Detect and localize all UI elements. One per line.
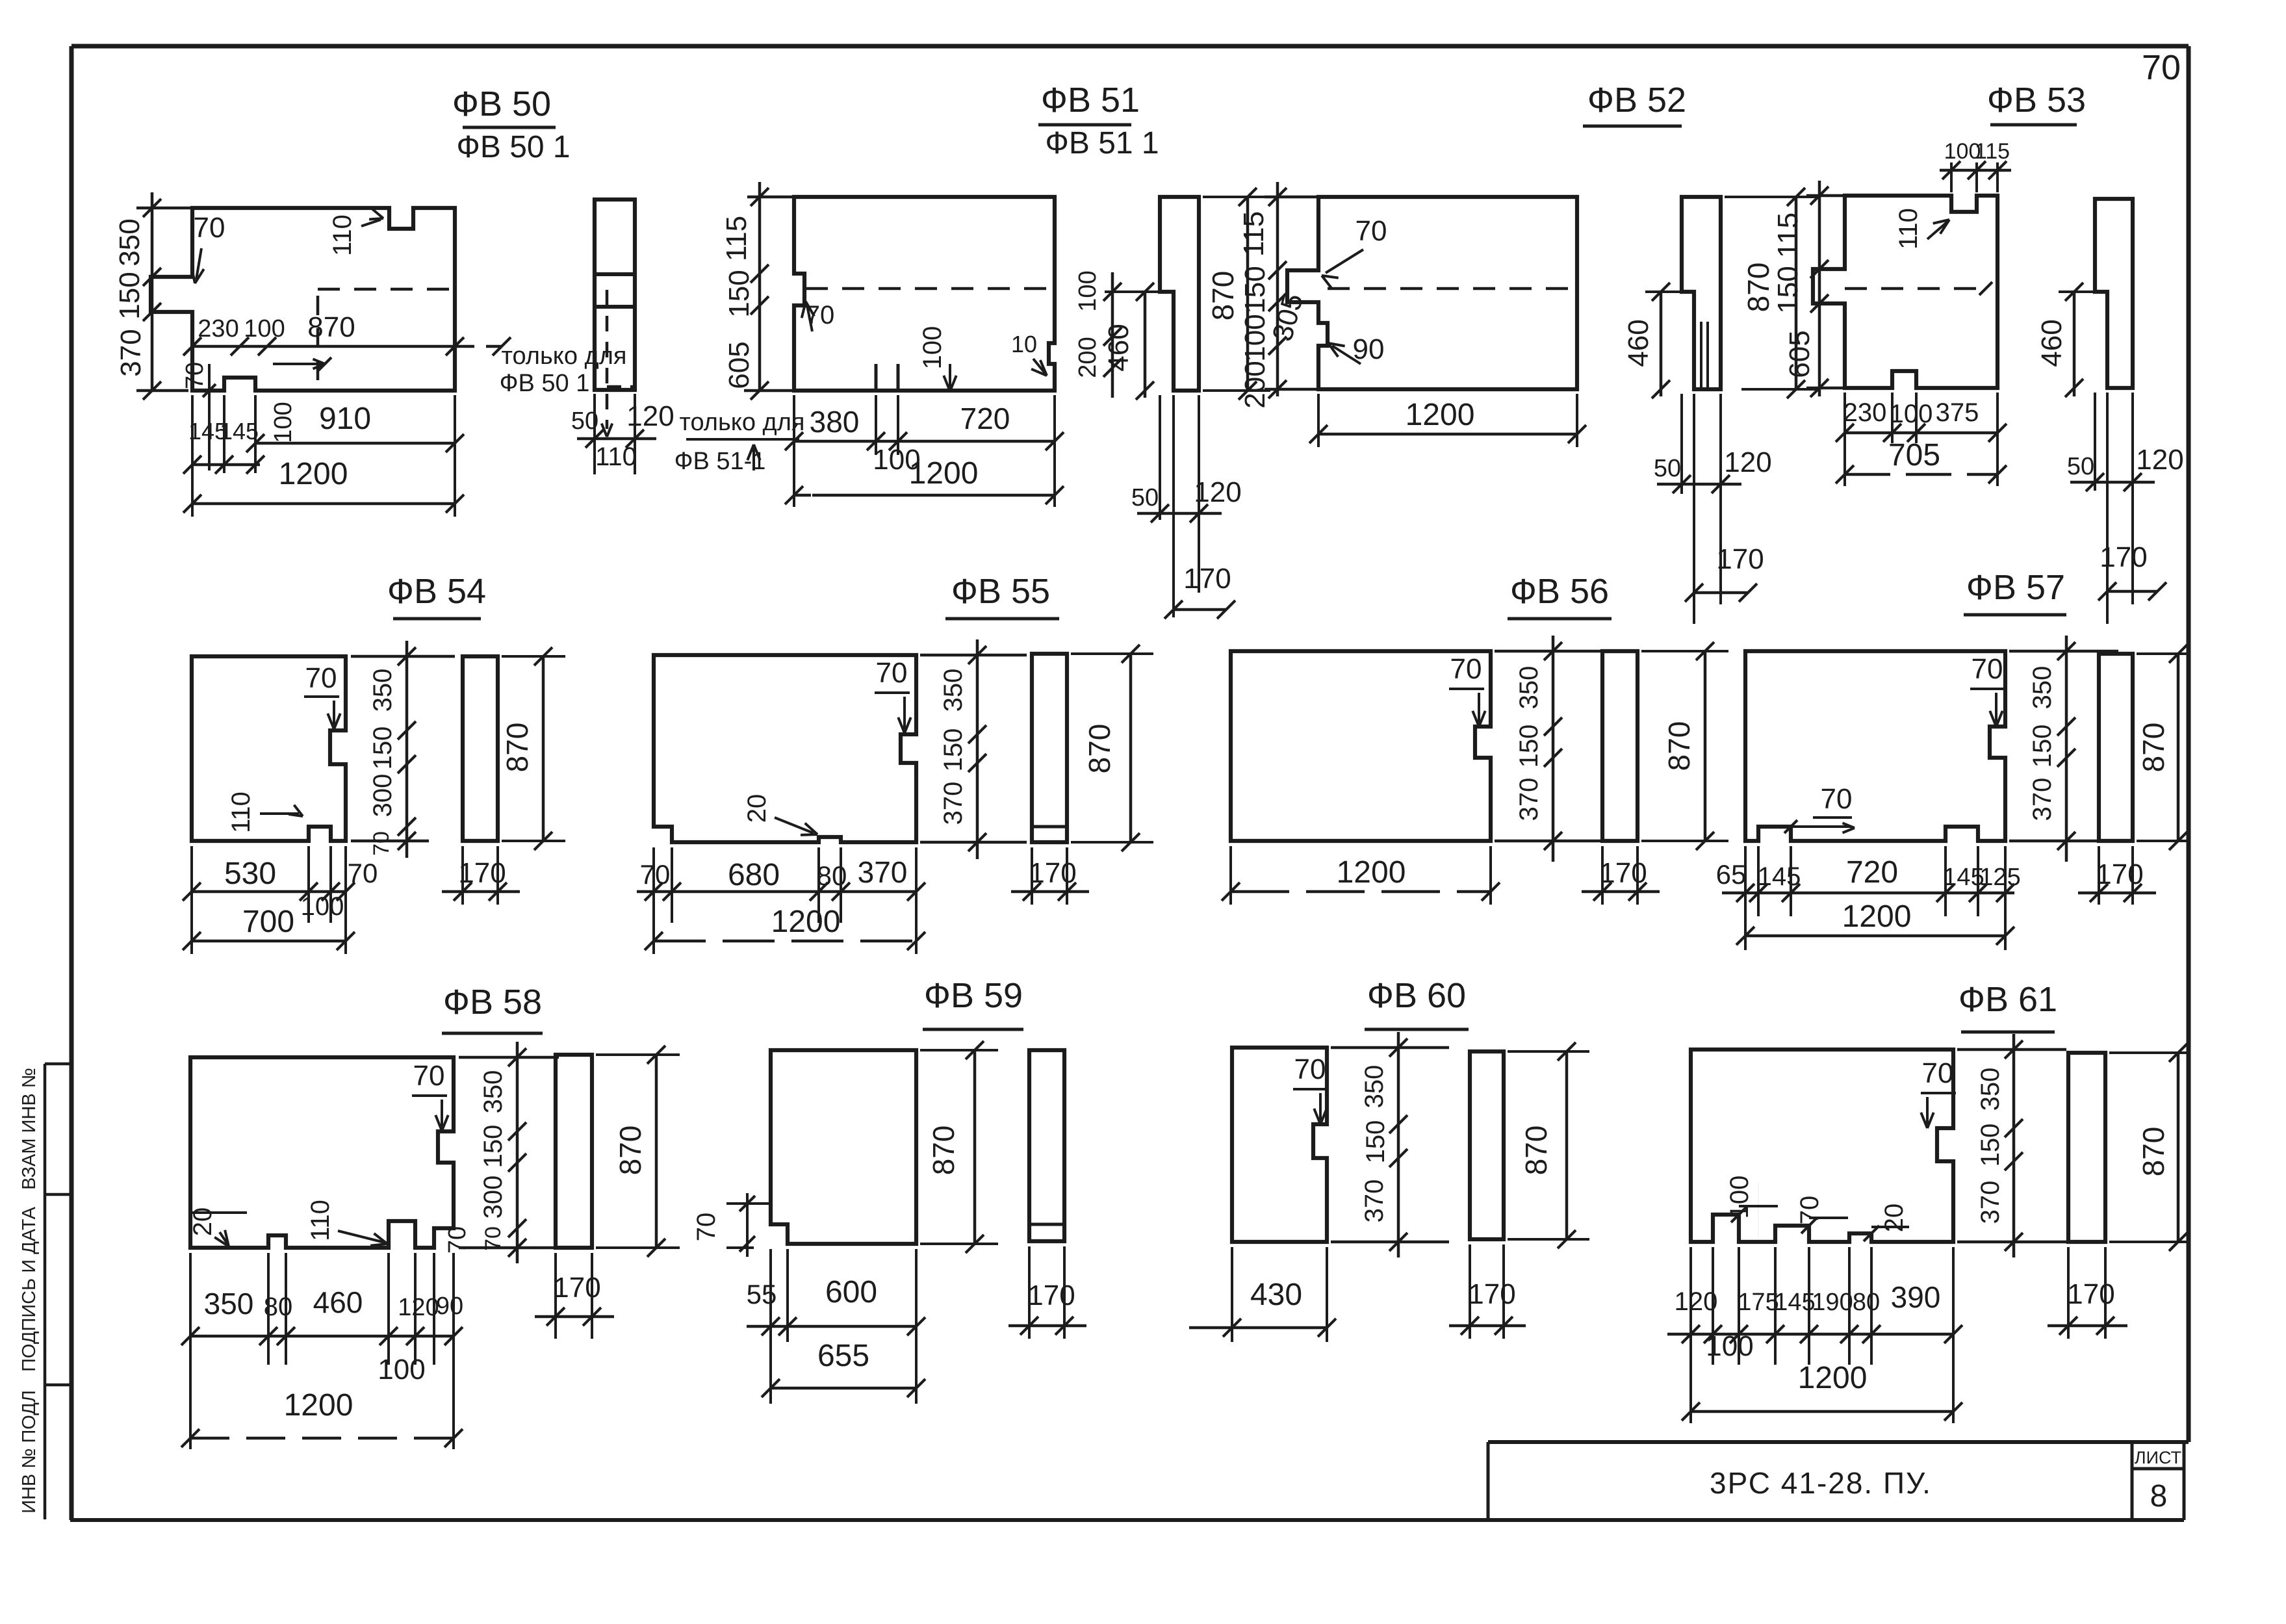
svg-text:150: 150: [2028, 725, 2057, 768]
svg-text:680: 680: [728, 858, 780, 892]
svg-text:ЛИСТ: ЛИСТ: [2135, 1448, 2181, 1467]
svg-text:1200: 1200: [1798, 1361, 1868, 1395]
svg-text:150: 150: [939, 728, 968, 772]
svg-text:ФВ 51: ФВ 51: [1041, 81, 1140, 120]
svg-text:70: 70: [2142, 48, 2181, 87]
svg-text:150: 150: [114, 272, 146, 319]
svg-text:170: 170: [1468, 1278, 1515, 1310]
svg-text:50: 50: [1654, 455, 1681, 482]
svg-text:1200: 1200: [1842, 899, 1912, 934]
svg-text:120: 120: [2136, 444, 2183, 476]
svg-text:375: 375: [1936, 398, 1979, 427]
svg-text:370: 370: [2028, 778, 2057, 821]
svg-text:150: 150: [479, 1125, 507, 1168]
svg-text:150: 150: [1772, 266, 1804, 313]
svg-text:870: 870: [613, 1126, 647, 1176]
svg-text:70: 70: [305, 662, 337, 694]
svg-text:70: 70: [640, 859, 671, 890]
svg-text:1200: 1200: [1337, 855, 1406, 890]
svg-text:65: 65: [1716, 859, 1747, 890]
svg-text:115: 115: [1772, 213, 1804, 258]
svg-text:70: 70: [1821, 783, 1853, 815]
svg-text:190: 190: [1812, 1289, 1853, 1316]
svg-text:870: 870: [1662, 721, 1696, 771]
svg-text:70: 70: [481, 1226, 506, 1251]
svg-text:ФВ 61: ФВ 61: [1959, 980, 2057, 1019]
svg-text:70: 70: [1922, 1057, 1954, 1089]
svg-text:110: 110: [595, 443, 637, 471]
svg-text:170: 170: [1027, 1280, 1075, 1311]
svg-text:170: 170: [2067, 1278, 2114, 1310]
svg-text:1200: 1200: [279, 457, 348, 491]
svg-text:705: 705: [1888, 438, 1940, 472]
svg-text:200: 200: [1239, 361, 1271, 408]
svg-text:600: 600: [825, 1275, 877, 1309]
svg-text:380: 380: [810, 405, 860, 439]
svg-text:870: 870: [2137, 723, 2170, 773]
svg-text:ФВ 55: ФВ 55: [951, 572, 1050, 611]
svg-text:870: 870: [1206, 271, 1240, 321]
svg-text:80: 80: [264, 1293, 293, 1321]
svg-text:720: 720: [960, 402, 1010, 435]
svg-text:10: 10: [1011, 331, 1037, 357]
svg-text:145: 145: [1774, 1289, 1815, 1316]
svg-text:20: 20: [743, 794, 771, 823]
svg-text:170: 170: [1599, 857, 1647, 889]
svg-text:120: 120: [1675, 1287, 1718, 1316]
svg-text:460: 460: [2036, 319, 2068, 367]
svg-text:120: 120: [1724, 446, 1771, 478]
svg-text:1200: 1200: [284, 1388, 353, 1423]
svg-text:120: 120: [626, 400, 674, 432]
svg-text:370: 370: [1976, 1181, 2005, 1224]
svg-text:870: 870: [307, 311, 355, 343]
svg-text:460: 460: [313, 1285, 363, 1319]
svg-text:175: 175: [1738, 1289, 1779, 1316]
svg-text:230: 230: [198, 315, 238, 342]
svg-text:145: 145: [1943, 864, 1984, 891]
svg-text:80: 80: [1853, 1289, 1880, 1316]
svg-text:100: 100: [301, 892, 344, 921]
svg-text:300: 300: [368, 774, 397, 818]
svg-text:70: 70: [1294, 1053, 1326, 1085]
svg-text:1200: 1200: [1406, 398, 1475, 432]
svg-text:150: 150: [1515, 725, 1543, 768]
svg-text:350: 350: [1976, 1068, 2005, 1111]
svg-text:100: 100: [918, 326, 947, 370]
svg-text:1200: 1200: [771, 905, 841, 939]
svg-text:90: 90: [436, 1293, 463, 1320]
svg-text:1200: 1200: [909, 456, 979, 491]
svg-text:70: 70: [1355, 215, 1387, 247]
svg-text:350: 350: [368, 669, 397, 712]
svg-text:870: 870: [927, 1126, 960, 1176]
svg-text:170: 170: [1029, 857, 1076, 889]
svg-text:170: 170: [2100, 541, 2147, 573]
svg-text:110: 110: [1894, 208, 1923, 250]
svg-text:70: 70: [413, 1060, 445, 1092]
svg-text:70: 70: [876, 657, 908, 689]
svg-text:100: 100: [378, 1354, 425, 1386]
svg-text:ФВ 50 1: ФВ 50 1: [456, 130, 570, 164]
svg-text:170: 170: [553, 1272, 600, 1304]
svg-text:ВЗАМ ИНВ №: ВЗАМ ИНВ №: [19, 1068, 40, 1190]
svg-text:70: 70: [1795, 1196, 1824, 1225]
svg-text:ФВ 57: ФВ 57: [1966, 568, 2065, 607]
svg-text:ИНВ № ПОДЛ: ИНВ № ПОДЛ: [19, 1390, 40, 1514]
svg-text:150: 150: [368, 727, 397, 770]
svg-text:100: 100: [1239, 314, 1271, 361]
svg-text:430: 430: [1250, 1278, 1302, 1312]
svg-text:70: 70: [692, 1213, 721, 1242]
svg-text:170: 170: [1183, 563, 1231, 595]
svg-text:350: 350: [2028, 666, 2057, 710]
svg-text:8: 8: [2150, 1479, 2168, 1514]
svg-text:910: 910: [319, 402, 371, 436]
svg-text:ФВ 54: ФВ 54: [387, 572, 486, 611]
svg-text:70: 70: [444, 1226, 471, 1254]
svg-text:100: 100: [1074, 270, 1101, 311]
svg-text:70: 70: [181, 362, 209, 389]
svg-text:150: 150: [1239, 266, 1271, 313]
svg-text:115: 115: [1975, 139, 2010, 164]
svg-text:370: 370: [939, 782, 968, 825]
svg-text:460: 460: [1623, 319, 1654, 367]
svg-text:ФВ 51 1: ФВ 51 1: [1045, 126, 1159, 161]
svg-text:ПОДПИСЬ И ДАТА: ПОДПИСЬ И ДАТА: [19, 1206, 40, 1371]
svg-text:145: 145: [220, 418, 259, 445]
svg-text:110: 110: [227, 792, 255, 833]
svg-text:80: 80: [817, 860, 847, 891]
svg-text:145: 145: [1758, 862, 1801, 891]
svg-text:120: 120: [398, 1294, 439, 1321]
svg-text:605: 605: [1784, 330, 1816, 378]
svg-text:655: 655: [817, 1339, 869, 1373]
svg-text:ФВ 50: ФВ 50: [452, 84, 551, 123]
svg-text:870: 870: [1519, 1126, 1553, 1176]
svg-text:170: 170: [1716, 543, 1764, 575]
svg-text:350: 350: [1515, 666, 1543, 710]
svg-text:605: 605: [723, 341, 755, 389]
svg-text:300: 300: [479, 1176, 507, 1219]
svg-text:870: 870: [1083, 724, 1116, 774]
svg-text:70: 70: [369, 831, 394, 856]
svg-text:870: 870: [500, 723, 534, 773]
svg-text:370: 370: [1360, 1179, 1389, 1223]
svg-text:720: 720: [1846, 855, 1898, 890]
svg-text:55: 55: [747, 1279, 777, 1309]
svg-text:460: 460: [1103, 324, 1135, 371]
svg-text:170: 170: [458, 857, 506, 889]
svg-text:50: 50: [2067, 453, 2094, 480]
svg-text:870: 870: [1741, 263, 1775, 313]
svg-text:ФВ 52: ФВ 52: [1587, 81, 1686, 120]
svg-text:ФВ 60: ФВ 60: [1367, 976, 1466, 1015]
svg-text:390: 390: [1891, 1280, 1941, 1314]
svg-text:200: 200: [1074, 337, 1101, 378]
svg-text:125: 125: [1979, 864, 2020, 891]
svg-text:50: 50: [571, 407, 598, 435]
svg-text:230: 230: [1843, 398, 1887, 427]
svg-text:150: 150: [1976, 1124, 2005, 1167]
svg-text:150: 150: [1361, 1120, 1390, 1164]
svg-text:370: 370: [115, 329, 147, 376]
svg-text:ФВ 50 1: ФВ 50 1: [500, 370, 590, 397]
svg-text:870: 870: [2137, 1127, 2170, 1177]
svg-text:ФВ 56: ФВ 56: [1510, 572, 1609, 611]
svg-text:350: 350: [479, 1070, 507, 1114]
svg-text:70: 70: [194, 212, 225, 244]
svg-text:3РС 41-28. ПУ.: 3РС 41-28. ПУ.: [1710, 1466, 1932, 1500]
svg-text:100: 100: [244, 315, 285, 342]
svg-text:70: 70: [1450, 653, 1482, 685]
svg-text:50: 50: [1131, 484, 1159, 511]
svg-text:700: 700: [242, 905, 294, 939]
svg-text:70: 70: [348, 858, 378, 888]
svg-text:350: 350: [1360, 1065, 1389, 1109]
svg-text:110: 110: [328, 214, 357, 256]
svg-text:115: 115: [721, 216, 752, 261]
svg-text:350: 350: [939, 669, 968, 712]
svg-text:ФВ 58: ФВ 58: [443, 983, 542, 1022]
svg-text:370: 370: [1515, 778, 1543, 821]
svg-text:100: 100: [1890, 400, 1933, 428]
svg-text:170: 170: [2096, 858, 2143, 890]
svg-text:110: 110: [306, 1200, 335, 1241]
svg-text:100: 100: [270, 402, 297, 443]
svg-text:только для: только для: [680, 409, 805, 436]
svg-text:100: 100: [1706, 1330, 1753, 1362]
svg-text:115: 115: [1238, 211, 1270, 257]
svg-text:ФВ 53: ФВ 53: [1987, 81, 2086, 120]
svg-text:70: 70: [1971, 653, 2003, 685]
svg-text:370: 370: [858, 855, 908, 889]
svg-text:ФВ 59: ФВ 59: [924, 976, 1023, 1015]
svg-text:120: 120: [1194, 476, 1241, 508]
svg-text:350: 350: [204, 1287, 254, 1321]
svg-text:150: 150: [723, 270, 755, 317]
svg-text:350: 350: [114, 218, 146, 266]
svg-text:530: 530: [224, 857, 276, 891]
